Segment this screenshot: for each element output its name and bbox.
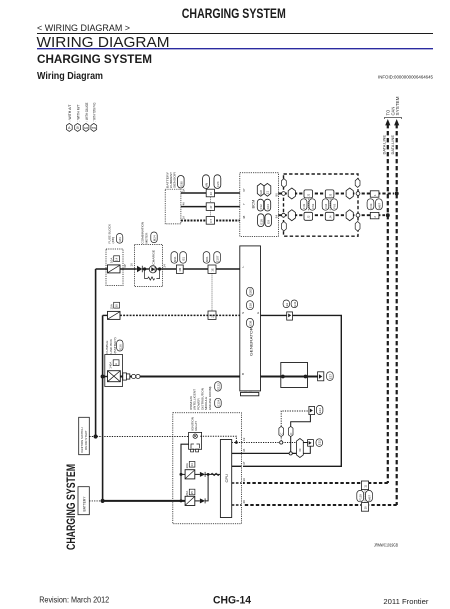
ignition switch box [79, 417, 90, 454]
svg-text:B: B [241, 373, 245, 375]
bottom oval F129 [357, 490, 364, 501]
svg-text:3A: 3A [181, 189, 185, 192]
wire fuse to generator S (dashed) [120, 314, 240, 316]
svg-text:BATTERY: BATTERY [82, 496, 86, 512]
resistor coil [211, 473, 219, 476]
svg-text:E41: E41 [293, 301, 297, 307]
fuse2 [185, 496, 195, 505]
data line 1 (CAN-H) vertical [387, 124, 389, 483]
svg-text:6P: 6P [123, 264, 127, 268]
svg-text:F33: F33 [302, 203, 306, 208]
CAN junction dashed box [284, 174, 359, 236]
bottom oval M67 [366, 490, 373, 501]
right outside connector upper box [370, 191, 379, 197]
svg-text:A: A [68, 126, 71, 130]
inline connector E на wireE [287, 312, 293, 320]
svg-text:39: 39 [242, 478, 246, 482]
connector link dotted 1-2 [209, 197, 211, 203]
connector oval E36 [117, 340, 123, 351]
blue rule [37, 48, 433, 50]
svg-text:7: 7 [242, 203, 246, 205]
oval 2 [180, 252, 187, 264]
right outside oval F33 [367, 199, 374, 210]
node fuse1 [180, 473, 183, 476]
legend hexagon B [75, 123, 81, 131]
svg-text:4A: 4A [181, 202, 185, 205]
wire cpu pin39 [232, 482, 242, 484]
oval E107 [214, 252, 221, 264]
wire CAN-H to IPDM pin39 [243, 482, 388, 484]
connector oval M4 [116, 234, 122, 244]
svg-text:CHARGE: CHARGE [151, 250, 155, 265]
svg-text:11: 11 [363, 484, 367, 487]
svg-text:67: 67 [242, 188, 246, 192]
wire pin19 dotted [241, 442, 296, 444]
svg-text:10A: 10A [109, 258, 113, 263]
svg-text:E28: E28 [249, 303, 253, 309]
edge circle upper-left [282, 192, 286, 196]
svg-text:F62: F62 [311, 203, 315, 208]
svg-text:J3: J3 [328, 193, 332, 196]
IPDM E/R box [173, 413, 242, 524]
svg-text:E107: E107 [216, 255, 220, 262]
hexagon C1 [279, 426, 284, 436]
svg-text:J2: J2 [307, 215, 311, 218]
connector oval M24 [151, 232, 157, 243]
connector label E90 [178, 176, 185, 189]
oval E122 [215, 382, 222, 391]
svg-text:(J/B): (J/B) [111, 237, 115, 244]
svg-text:DATA LINE: DATA LINE [391, 134, 395, 154]
svg-text:GR: GR [259, 189, 263, 194]
svg-text:DATA LINE: DATA LINE [382, 134, 386, 154]
svg-text:16: 16 [129, 263, 133, 267]
svg-text:BCM: BCM [251, 200, 256, 209]
circle junction w36 [289, 452, 292, 455]
svg-text:ON OR START: ON OR START [84, 430, 88, 450]
svg-text:F24: F24 [216, 181, 220, 187]
svg-text:M4: M4 [118, 237, 122, 241]
svg-text:10: 10 [363, 506, 367, 510]
splice cluster2 lower box [325, 212, 334, 220]
wire cpu pin37 [232, 465, 242, 467]
hex connector lower wire left [288, 210, 295, 221]
svg-text:F129: F129 [359, 494, 363, 501]
svg-text:M61: M61 [205, 256, 209, 262]
wire cpu pin40 [232, 504, 242, 506]
fuse symbol 10A [108, 265, 121, 273]
svg-text:: WITH TOW PKG: : WITH TOW PKG [93, 102, 97, 121]
inline terminal pair [123, 373, 127, 380]
top rule [37, 33, 433, 35]
bracket above arrows [385, 117, 402, 119]
node bus A ignition [94, 434, 98, 438]
cluster2 dotted link [329, 199, 331, 211]
diode1 [195, 473, 200, 475]
svg-text:86: 86 [275, 193, 279, 197]
inline connector E107 upper [208, 265, 216, 273]
svg-text:E9: E9 [267, 220, 271, 224]
fuse1 [181, 473, 185, 475]
splice cluster2 upper box [325, 190, 334, 198]
svg-text:A: A [114, 363, 118, 365]
fuse symbol 15A [108, 311, 121, 319]
junction box [281, 363, 308, 388]
right outside connector lower box [370, 212, 379, 218]
vertical bus B (battery feed) [102, 315, 104, 501]
svg-text:CHARGING SYSTEM: CHARGING SYSTEM [64, 464, 78, 550]
svg-text:C: C [289, 433, 293, 435]
node meter-b [158, 267, 161, 270]
inline connector sq on wire3 [206, 217, 214, 225]
right outside oval M67 [376, 199, 383, 210]
node diode junction [207, 473, 210, 476]
hex connector upper wire left [288, 188, 295, 199]
wire bus to fuse [103, 314, 108, 316]
wire generator E to IPDM 37 [243, 315, 341, 466]
node bus B battery [101, 499, 105, 503]
connector link dotted 2-3 [209, 210, 211, 216]
svg-text:S: S [241, 312, 245, 314]
svg-text:36: 36 [242, 448, 246, 452]
edge hex M lower-right [355, 222, 360, 232]
svg-text:CHARGING SYSTEM: CHARGING SYSTEM [182, 6, 286, 21]
svg-text:(BATTERY): (BATTERY) [113, 337, 117, 353]
svg-text:E36: E36 [118, 344, 122, 350]
svg-text:14: 14 [115, 257, 119, 261]
oval E124 [215, 398, 222, 407]
DIAGRAM CONTENT [66, 102, 96, 131]
BCM oval F24 [264, 199, 270, 211]
svg-text:24: 24 [163, 264, 167, 268]
svg-text:20A: 20A [185, 463, 189, 468]
hexagon 6F tall [297, 439, 304, 458]
svg-text:1E: 1E [210, 268, 214, 272]
svg-text:Revision: March 2012: Revision: March 2012 [39, 596, 109, 605]
svg-text:CHARGING SYSTEM: CHARGING SYSTEM [37, 52, 152, 66]
internal battery bus [181, 444, 189, 501]
svg-text:CPU: CPU [224, 474, 229, 483]
dotted connector link [211, 273, 213, 311]
svg-text:SENSOR: SENSOR [173, 171, 177, 188]
data line 2 (CAN-L) vertical [396, 124, 398, 505]
wire sensor pin2 to BCM 7 [181, 206, 240, 208]
svg-text:METER: METER [144, 232, 148, 244]
oval E41 [291, 300, 297, 308]
svg-text:M67: M67 [377, 203, 381, 209]
hex connector lower wire right [346, 210, 353, 221]
bottom link dotted [364, 490, 366, 503]
svg-text:E2: E2 [285, 302, 289, 306]
wire pin36 [241, 452, 296, 454]
wire relay to pin19 [200, 436, 236, 442]
svg-text:M24: M24 [153, 235, 157, 241]
fusible link symbol [108, 371, 121, 382]
ignition relay [189, 432, 202, 449]
wire bus to fusible link [103, 376, 108, 378]
svg-text:C7: C7 [209, 219, 213, 223]
generator oval E28 [247, 301, 254, 310]
svg-text:E205: E205 [249, 288, 253, 295]
svg-text:: WITH A/T: : WITH A/T [68, 104, 72, 122]
svg-text:E27: E27 [328, 374, 332, 380]
svg-text:E44: E44 [318, 408, 322, 414]
wire CAN-L BCM84 to data line 1 [278, 214, 385, 216]
svg-text:F12: F12 [259, 204, 263, 210]
oval E2 [283, 300, 289, 308]
connector E4 box [309, 406, 315, 414]
battery current sensor box [165, 189, 181, 224]
svg-text:ENGINE ROOM): ENGINE ROOM) [208, 387, 212, 410]
svg-text:F63: F63 [333, 203, 337, 208]
svg-text:B1: B1 [182, 257, 186, 261]
CPU box [220, 440, 231, 518]
svg-text:1A: 1A [181, 216, 185, 219]
svg-text:M31: M31 [173, 256, 177, 262]
node pin19 [235, 441, 238, 444]
BCM oval E18 [258, 214, 264, 227]
wire ignition to IPDM relay [89, 436, 188, 438]
charge lamp [149, 266, 156, 273]
svg-text:INFOID:0000000006464645: INFOID:0000000006464645 [378, 75, 433, 80]
edge circle lower-left [282, 213, 286, 217]
inline connector E107 lower [208, 311, 216, 319]
node meter-a [143, 267, 146, 270]
wire cpu pin36 [232, 452, 242, 454]
BCM box [240, 173, 279, 237]
svg-text:TW: TW [91, 126, 96, 130]
wire CAN-L to IPDM pin40 [243, 504, 397, 506]
combination meter box [134, 245, 162, 287]
connector E15 box [308, 440, 314, 447]
svg-text:CHG-14: CHG-14 [213, 595, 252, 607]
wire meter to generator L [163, 268, 240, 270]
oval E15 [316, 439, 323, 447]
oval M61 [203, 252, 210, 264]
svg-text:: WITH M/T: : WITH M/T [77, 104, 81, 122]
generator box [240, 246, 261, 391]
bottom connector upper box [361, 481, 368, 490]
fuse block (J/B) box [106, 249, 123, 286]
node CAN-L on line1 [386, 213, 390, 217]
wire battery to IPDM [103, 500, 186, 502]
wire CAN-H BCM86 to data line 2 [278, 193, 394, 195]
svg-text:15A: 15A [109, 304, 113, 309]
wire cpu pin19 [232, 442, 242, 444]
legend hexagon A [66, 123, 72, 131]
BCM oval F12 [257, 199, 263, 211]
wire fuse to meter [96, 268, 137, 270]
node CAN-H on line2 [395, 192, 399, 196]
cluster2 oval F34 [322, 199, 329, 210]
fusible link box [105, 355, 123, 387]
svg-text:19: 19 [242, 437, 246, 441]
svg-text:2011 Frontier: 2011 Frontier [383, 597, 429, 606]
edge hex M lower-left [282, 222, 287, 232]
svg-text:E15: E15 [318, 440, 322, 446]
battery box [78, 487, 89, 515]
wire sensor pin3 to BCM 48 (shield) [181, 220, 240, 222]
svg-text:E18: E18 [259, 219, 263, 225]
svg-text:L: L [241, 266, 245, 268]
svg-text:6F: 6F [298, 448, 302, 452]
svg-text:E90: E90 [180, 181, 184, 187]
splice cluster1 upper box [304, 190, 313, 198]
cluster1 dotted link [307, 199, 309, 211]
terminal connector [318, 372, 324, 381]
cluster1 oval F62 [309, 199, 316, 210]
svg-text:21: 21 [266, 191, 270, 195]
svg-text:F34: F34 [324, 203, 328, 208]
svg-text:SYSTEM: SYSTEM [395, 96, 400, 116]
cluster1 oval F33 [300, 199, 307, 210]
edge hex M upper-left [282, 179, 287, 188]
circle junction w19 [280, 441, 283, 444]
node b2-right [304, 375, 308, 379]
BCM hex GR [257, 183, 264, 196]
svg-text:: WITH GAUGE: : WITH GAUGE [85, 102, 89, 122]
join bar [303, 443, 310, 454]
node bus B fusible [101, 375, 105, 379]
svg-text:JRMWC1019GB: JRMWC1019GB [374, 543, 398, 548]
terminal circles B B [132, 374, 136, 378]
edge circle lower-right [356, 213, 360, 217]
svg-text:F33: F33 [369, 203, 373, 208]
edge hex M upper-right [355, 179, 360, 188]
svg-text:20A: 20A [185, 491, 189, 496]
svg-text:40: 40 [242, 500, 246, 504]
svg-text:GR: GR [84, 126, 89, 130]
edge circle upper-right [356, 192, 360, 196]
svg-text:RELAY: RELAY [194, 421, 198, 431]
svg-text:Wiring Diagram: Wiring Diagram [37, 71, 103, 82]
wire generator B to battery cable [261, 376, 318, 378]
svg-text:C: C [279, 433, 283, 435]
svg-text:37: 37 [242, 461, 246, 465]
svg-text:E: E [256, 312, 260, 314]
arrowhead line2 [394, 119, 399, 125]
connector oval F24 [214, 175, 221, 189]
svg-text:48: 48 [242, 215, 246, 219]
svg-text:M67: M67 [368, 495, 372, 501]
hexagon C2 [288, 426, 293, 436]
generator oval E38 [247, 318, 254, 327]
wire sensor pin1 to BCM 67 [181, 192, 240, 194]
cluster2 oval F63 [331, 199, 338, 210]
connector oval 6N [203, 175, 210, 189]
diode2 [195, 500, 200, 502]
resistor bypass [145, 269, 160, 280]
diode in meter [137, 266, 142, 272]
bottom connector lower box [361, 503, 368, 512]
wire fusible link to generator B [120, 376, 240, 378]
inline connector M31 [176, 265, 183, 273]
svg-text:1M: 1M [178, 267, 182, 272]
svg-text:F24: F24 [266, 204, 270, 210]
legend hexagon T [91, 123, 97, 131]
hex connector upper wire right [346, 188, 353, 199]
inline connector sq on wire2 [206, 203, 214, 211]
svg-text:< WIRING DIAGRAM >: < WIRING DIAGRAM > [37, 23, 130, 33]
svg-text:140A: 140A [109, 362, 113, 369]
vertical to E4 connector [281, 411, 309, 441]
legend hexagon M [83, 123, 89, 131]
svg-text:47: 47 [209, 205, 213, 209]
splice cluster1 lower box [304, 212, 313, 220]
svg-text:6N: 6N [205, 183, 209, 187]
svg-text:30: 30 [115, 304, 119, 308]
node fuse2 [180, 499, 183, 502]
generator oval E205 [247, 287, 254, 296]
svg-text:34: 34 [190, 463, 194, 467]
inline connector sq on wire1 [206, 189, 214, 197]
node b2-left [281, 375, 285, 379]
vertical bus A (ignition feed) [95, 269, 97, 437]
svg-text:46: 46 [209, 192, 213, 196]
svg-text:35: 35 [190, 491, 194, 495]
BCM hex 24 [264, 183, 271, 196]
wire battery dotted seg [89, 500, 102, 502]
svg-text:J4: J4 [328, 215, 332, 218]
svg-text:J1: J1 [307, 193, 311, 196]
oval E27 [327, 372, 334, 381]
svg-text:E38: E38 [249, 320, 253, 326]
oval E44 [316, 405, 323, 414]
svg-text:E124: E124 [216, 399, 220, 406]
svg-text:E122: E122 [216, 383, 220, 390]
arrowhead line1 [385, 119, 390, 125]
oval M31 [171, 252, 178, 264]
BCM oval E9 [265, 214, 271, 227]
svg-text:GENERATOR: GENERATOR [249, 327, 254, 356]
svg-text:B: B [76, 126, 79, 130]
generator base plate [244, 390, 252, 392]
svg-text:84: 84 [275, 215, 279, 219]
